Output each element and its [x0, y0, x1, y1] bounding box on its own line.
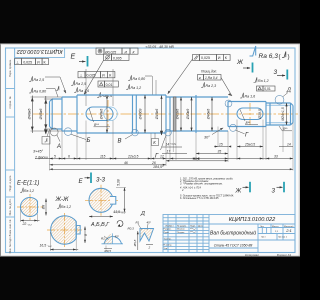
- datum box К below shaft: [152, 139, 159, 146]
- svg-text:Пров.: Пров.: [164, 232, 170, 234]
- dim row upper: 14 / 15 / 14: [162, 146, 293, 149]
- small header labels: [164, 225, 295, 250]
- svg-text:Ra 2,5: Ra 2,5: [34, 78, 45, 82]
- svg-text:Иванов: Иванов: [177, 229, 185, 231]
- technical requirements: [179, 177, 234, 200]
- svg-text:25±0,5: 25±0,5: [244, 143, 255, 147]
- keyway slot 1 (stadium): [86, 107, 113, 121]
- svg-text:0,025: 0,025: [201, 56, 210, 60]
- svg-text:Подп. и дата: Подп. и дата: [8, 175, 12, 191]
- roughness under Е-Е label: [20, 188, 34, 193]
- parallelism frame right: [193, 55, 231, 61]
- svg-text:Ra 1,6: Ra 1,6: [245, 95, 256, 99]
- roughness Ra 2.5 mid: [71, 80, 86, 86]
- svg-text:Ra 6,3: Ra 6,3: [259, 53, 279, 60]
- roughness under Ж-Ж label: [57, 204, 71, 209]
- groove callout circle Б: [64, 128, 72, 136]
- roughness Ra 1.6 mid: [74, 87, 89, 93]
- shaft outline: [50, 95, 294, 133]
- secondary dim row: [50, 164, 167, 166]
- svg-text:Формат А3: Формат А3: [277, 253, 292, 257]
- svg-text:3: 3: [274, 69, 278, 76]
- svg-text:Ra 1,2: Ra 1,2: [24, 189, 34, 193]
- svg-text:Ra 1,2: Ra 1,2: [131, 86, 142, 90]
- section S6: [196, 97, 228, 131]
- svg-text:Лист: Лист: [169, 226, 174, 228]
- section S7 keyway seat: [228, 102, 266, 127]
- svg-text:Ø5,8: Ø5,8: [133, 239, 137, 247]
- svg-text:0,025: 0,025: [87, 74, 96, 78]
- svg-text:Ø39,5: Ø39,5: [258, 109, 262, 120]
- svg-text:Ra 0,80: Ra 0,80: [34, 90, 47, 94]
- groove callout circle at collar: [165, 129, 172, 136]
- left column cell dividers: [6, 88, 15, 90]
- svg-text:26: 26: [151, 161, 156, 165]
- svg-text:0,01: 0,01: [264, 87, 271, 91]
- svg-text:Н.контр.: Н.контр.: [164, 245, 173, 247]
- svg-text:Дата: Дата: [198, 226, 204, 228]
- svg-text:8**: 8**: [94, 123, 99, 127]
- svg-text:Ø46к6: Ø46к6: [207, 109, 211, 121]
- svg-text:КЦИП13.0100.022: КЦИП13.0100.022: [17, 48, 63, 54]
- svg-text:15: 15: [219, 143, 223, 147]
- svg-text:22±0,5: 22±0,5: [127, 155, 138, 159]
- small check mark on chamfer: [56, 86, 59, 91]
- svg-text:Ø48к6: Ø48к6: [100, 109, 104, 121]
- svg-text:КЦИП13.0100.022: КЦИП13.0100.022: [229, 217, 276, 223]
- leader from parallelism frame down to shaft: [168, 59, 193, 94]
- dim d45k6 right of S3: [161, 96, 163, 136]
- svg-text:А: А: [56, 144, 61, 150]
- groove callout circle near thread shoulder: [275, 95, 284, 104]
- left rows: [163, 217, 209, 219]
- general roughness Ra 6.3 top-right: [250, 46, 290, 61]
- svg-text:Перв. примен.: Перв. примен.: [8, 59, 12, 77]
- svg-text:8**: 8**: [246, 121, 251, 125]
- roughness Ra 0.80 far left: [29, 88, 58, 97]
- З-З section circle with keyway: [85, 185, 118, 216]
- svg-text:Инв. № подл.: Инв. № подл.: [8, 236, 12, 253]
- svg-text:Ж: Ж: [235, 188, 242, 195]
- perpendicularity frame mid-left: [78, 72, 115, 78]
- svg-text:35: 35: [218, 150, 222, 154]
- svg-text:Ø45к6: Ø45к6: [39, 108, 43, 121]
- svg-text:Листов 1: Листов 1: [278, 237, 288, 239]
- roughness Ra 1.2 right: [254, 77, 269, 83]
- svg-text:43,5: 43,5: [193, 157, 200, 161]
- svg-text:): ): [288, 54, 290, 61]
- svg-text:Разраб.: Разраб.: [164, 229, 172, 231]
- svg-text:R1: R1: [101, 237, 105, 241]
- section S2: [62, 97, 77, 131]
- Е-Е section circle with flat: [17, 194, 43, 220]
- section S1 d45k6 with chamfer: [50, 99, 63, 129]
- roughness Ra 1.6 (right of keyway): [240, 93, 255, 99]
- svg-text:Копировал: Копировал: [245, 253, 259, 257]
- svg-text:45°: 45°: [147, 221, 152, 225]
- svg-text:Е-Е(1:1): Е-Е(1:1): [17, 180, 39, 186]
- svg-text:14⁺⁰·⁴³: 14⁺⁰·⁴³: [166, 143, 177, 147]
- svg-text:Справ. №: Справ. №: [8, 96, 12, 108]
- thread minor diameter lines: [266, 104, 291, 106]
- keyway slot 2 (stadium): [237, 108, 263, 120]
- svg-text:3×45°: 3×45°: [33, 150, 44, 154]
- svg-text:2.: 2.: [181, 189, 184, 192]
- svg-text:Утв.: Утв.: [164, 248, 169, 250]
- overall dim 184.5: [50, 168, 294, 170]
- section S5 with groove: [170, 95, 196, 133]
- svg-text:2 фаски: 2 фаски: [34, 156, 48, 160]
- svg-text:Взам. инв. №: Взам. инв. №: [8, 220, 12, 237]
- svg-text:Ra 2,3: Ra 2,3: [206, 84, 217, 88]
- section S8 threaded end: [266, 103, 293, 125]
- svg-text:30°: 30°: [204, 136, 210, 140]
- runout frame 0.01 mid: [98, 81, 118, 87]
- svg-text:0,01: 0,01: [106, 83, 113, 87]
- thread dim M24: [286, 103, 288, 125]
- cylindricity frame 0.005: [104, 54, 130, 60]
- svg-text:И: И: [218, 56, 221, 60]
- relief groove band on S5: [173, 97, 176, 131]
- svg-text:№ докум.: № докум.: [177, 225, 187, 228]
- dim d48k6 far left: [31, 96, 63, 134]
- svg-text:И: И: [37, 60, 40, 64]
- svg-text:33: 33: [274, 155, 278, 159]
- groove step lines inside S3: [133, 95, 137, 133]
- dim d40k9 on S5: [191, 97, 193, 131]
- Е-Е height dim: [45, 199, 47, 216]
- svg-text:Ø0,025: Ø0,025: [104, 50, 116, 54]
- З-З bottom dim: [89, 216, 113, 218]
- roughness Ra 2.3: [201, 82, 216, 88]
- section S3 long: [77, 95, 166, 133]
- svg-text:А,Б,В,Г: А,Б,В,Г: [90, 222, 110, 228]
- svg-text:Ж: Ж: [236, 59, 244, 66]
- left column vertical labels: [8, 59, 12, 254]
- centerline of shaft: [33, 113, 298, 115]
- cut label Ж (top): [236, 59, 253, 73]
- svg-text:Сталь 45 ГОСТ 1050-88: Сталь 45 ГОСТ 1050-88: [214, 244, 253, 248]
- title block grid: [163, 215, 295, 253]
- svg-text:17: 17: [167, 150, 171, 154]
- sheet outer border: [6, 48, 296, 253]
- svg-text:Ø40б9: Ø40б9: [139, 109, 143, 121]
- cut mark Е bottom: [79, 173, 92, 186]
- svg-text:13,5₋₀,₂: 13,5₋₀,₂: [114, 210, 126, 214]
- svg-text:46: 46: [124, 161, 128, 165]
- cut label З (top): [274, 69, 288, 80]
- svg-text:Ø48к6: Ø48к6: [27, 108, 31, 121]
- Ж-Ж section circle with flat and key tab: [47, 213, 83, 247]
- inner frame left margin line: [14, 48, 16, 253]
- svg-text:184,5*: 184,5*: [153, 165, 164, 169]
- svg-text:8: 8: [84, 234, 88, 236]
- dim row 17 / 35: [162, 153, 187, 155]
- svg-text:Лит.: Лит.: [260, 226, 264, 228]
- svg-text:Ra 1,6: Ra 1,6: [79, 89, 90, 93]
- svg-text:Ra 1,2: Ra 1,2: [258, 79, 269, 83]
- svg-text:Инв. № дубл.: Инв. № дубл.: [8, 198, 12, 215]
- svg-text:2: 2: [148, 246, 151, 250]
- svg-text:Б: Б: [87, 138, 91, 144]
- runout frame 0.01: [257, 86, 276, 91]
- svg-text:16,5₋₀,₂: 16,5₋₀,₂: [40, 244, 53, 248]
- Ж-Ж width dim: [50, 249, 78, 251]
- svg-text:1,Ra 0,4: 1,Ra 0,4: [205, 76, 218, 80]
- keyway1 leader 8**: [89, 108, 94, 122]
- concentricity frame (middle top): [96, 48, 138, 54]
- svg-text:Ø45к6: Ø45к6: [155, 109, 159, 121]
- groove detail А,Б,В,Г: [101, 233, 123, 253]
- svg-text:Ж-Ж: Ж-Ж: [55, 197, 70, 203]
- groove callout circle Г: [230, 124, 237, 131]
- groove callout circle А: [50, 128, 58, 136]
- svg-text:R0,3: R0,3: [128, 227, 135, 231]
- svg-text:Ø0,5: Ø0,5: [104, 249, 112, 253]
- svg-text:0,025: 0,025: [23, 60, 32, 64]
- groove callout circle В: [132, 129, 139, 136]
- svg-text:14: 14: [287, 143, 291, 147]
- cut mark Ж bottom: [235, 182, 251, 195]
- svg-text:Позиц.доп.: Позиц.доп.: [201, 70, 217, 74]
- svg-text:Масштаб: Масштаб: [284, 226, 294, 228]
- svg-text:В: В: [118, 139, 122, 145]
- svg-text:R1: R1: [136, 221, 140, 225]
- svg-text:⌀: ⌀: [199, 76, 201, 80]
- cutter circle at keyway1: [104, 107, 118, 121]
- svg-text:Ra 0,80: Ra 0,80: [133, 77, 146, 81]
- svg-text:6. Остальные ТТ по СТБ 1014-95: 6. Остальные ТТ по СТБ 1014-95.: [180, 197, 219, 200]
- svg-text:Ra 1,2: Ra 1,2: [61, 205, 71, 209]
- svg-text:М24×1,5: М24×1,5: [281, 107, 285, 120]
- main dim chain row: [35, 158, 293, 160]
- svg-text:12: 12: [160, 155, 164, 159]
- roughness Ra 0.80 mid-right: [128, 75, 156, 95]
- Ж-Ж height dim: [84, 227, 86, 244]
- cut mark З bottom: [272, 182, 285, 195]
- roughness Ra 1.2 mid-right: [126, 84, 141, 90]
- svg-text:Масса: Масса: [272, 226, 279, 228]
- extension lines below shaft: [50, 120, 294, 171]
- svg-text:2:1: 2:1: [285, 228, 292, 233]
- svg-text:6: 6: [68, 155, 70, 159]
- svg-text:3: 3: [272, 188, 276, 195]
- chamfer 30 deg leader: [212, 128, 223, 135]
- svg-text:3-3: 3-3: [96, 176, 106, 183]
- svg-text:Ø42к6: Ø42к6: [176, 109, 180, 121]
- svg-text:22₋₀,₂: 22₋₀,₂: [22, 222, 33, 226]
- svg-text:И: И: [102, 74, 105, 78]
- svg-text:Ø40к9: Ø40к9: [186, 109, 190, 121]
- cut label Е (top): [71, 54, 88, 67]
- svg-text:Е: Е: [71, 54, 76, 61]
- keyway2 vertical centerline: [249, 103, 251, 125]
- svg-text:«33,05...48,30 НВ: «33,05...48,30 НВ: [146, 45, 175, 49]
- svg-text:Петров: Петров: [177, 232, 185, 234]
- svg-text:0,005: 0,005: [113, 57, 122, 61]
- dim d48 right of cutter: [144, 95, 146, 133]
- groove callout circle at S7 top step: [225, 100, 232, 107]
- svg-text:3. **Размер обеспеч. инструмен: 3. **Размер обеспеч. инструментом.: [180, 183, 223, 186]
- svg-text:5,08: 5,08: [117, 179, 121, 186]
- svg-text:Т.контр.: Т.контр.: [164, 238, 172, 240]
- keyway2 leader 8**: [240, 110, 245, 122]
- collar step: [166, 97, 170, 131]
- svg-text:5: 5: [54, 155, 56, 159]
- tolerance frame top-left (perpendicularity 0.025 И К): [15, 59, 49, 65]
- dim d42k6 on S5: [180, 97, 182, 131]
- svg-text:Д: Д: [140, 211, 145, 217]
- svg-text:Ø8: Ø8: [42, 205, 46, 211]
- signature squiggles: [190, 228, 196, 233]
- roughness Ra 1.6 above keyway: [97, 92, 112, 98]
- sheet background: [0, 44, 300, 257]
- svg-text:45°: 45°: [115, 235, 120, 239]
- leader from frames to shaft: [84, 60, 104, 94]
- svg-text:Вал быстроходный: Вал быстроходный: [210, 230, 256, 237]
- svg-text:Подп.: Подп.: [190, 226, 196, 228]
- dim d45k6 left: [44, 96, 53, 134]
- dim d46k6 on S6: [211, 97, 213, 131]
- roughness Ra 2.5 far left: [29, 76, 66, 93]
- sheet edge shading: [0, 44, 2, 257]
- svg-text:8**: 8**: [283, 127, 288, 131]
- Е-Е width dim 22: [21, 220, 40, 222]
- dim d48 under keyway: [106, 95, 108, 133]
- svg-text:Д: Д: [286, 88, 291, 94]
- svg-text:115: 115: [100, 155, 106, 159]
- keyway1 vertical centerline: [107, 100, 109, 129]
- thread undercut label 8**: [279, 126, 282, 131]
- view Д detail (center hole): [128, 221, 154, 251]
- rotated designation stamp top-left: [15, 48, 65, 58]
- svg-text:Лист: Лист: [261, 237, 266, 239]
- svg-text:Ra 2,5: Ra 2,5: [76, 82, 87, 86]
- boxed roughness at chamfer: [42, 137, 50, 145]
